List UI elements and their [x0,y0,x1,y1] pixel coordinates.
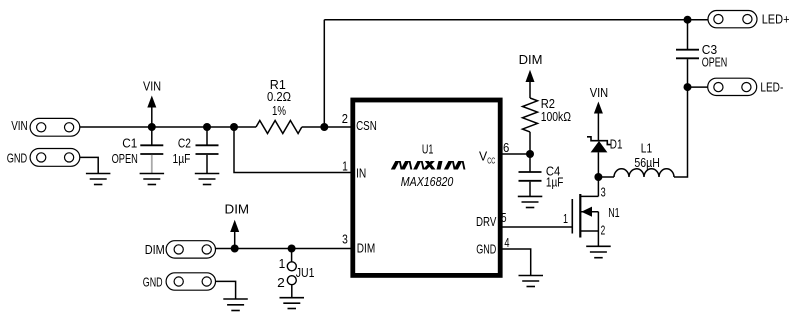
diode D1 schottky [587,114,611,178]
connector J2 GND [30,149,80,167]
svg-text:IN: IN [356,166,366,180]
connector J5 DIM [166,241,215,258]
svg-text:5: 5 [501,211,506,225]
svg-text:OPEN: OPEN [702,56,728,70]
svg-text:2: 2 [601,224,606,238]
ground symbol at C2 [195,174,220,185]
node junction LED- [684,83,692,91]
node junction DIM flag [231,245,239,253]
capacitor C1 [140,127,163,154]
ground symbol at IC GND [519,276,544,287]
svg-text:100kΩ: 100kΩ [541,110,571,124]
power flag DIM at R2 [526,70,535,82]
svg-text:3: 3 [342,233,348,247]
wire VCC pin to R2/C4 [501,153,531,155]
svg-text:2: 2 [342,112,348,126]
wire stub to LED+ [688,19,709,21]
wire stub to LED- [688,86,708,88]
power flag DIM bottom [230,220,239,249]
svg-text:1%: 1% [272,104,286,118]
svg-text:GND: GND [7,151,28,165]
svg-text:GND: GND [143,275,163,289]
svg-text:1: 1 [342,159,348,173]
svg-text:D1: D1 [610,138,623,152]
wire GND connector to ground [80,157,98,173]
svg-text:DIM: DIM [357,241,375,255]
wire top feedback vertical [323,20,325,127]
wire LED- down to inductor [674,87,688,177]
node junction drain/L1/D1 [594,173,602,181]
capacitor C4 [519,154,542,196]
wire R1 to CSN pin [302,126,351,128]
node junction CSN [320,123,328,131]
IC U1 MAX16820 body [353,100,500,275]
svg-text:VCC: VCC [479,150,495,166]
power flag VIN top-left [147,96,156,128]
ground symbol at C1 [140,174,165,185]
connector J4 LED- [708,78,757,95]
wire GND pin 4 to ground [501,249,531,276]
svg-text:DIM: DIM [225,203,250,217]
svg-text:C2: C2 [178,137,191,151]
node junction IN branch [230,123,238,131]
svg-text:2: 2 [277,276,285,290]
wire IN branch [234,127,351,173]
svg-text:CSN: CSN [356,119,377,133]
wire VIN rail [80,126,256,128]
svg-text:DIM: DIM [519,53,543,67]
svg-text:1: 1 [563,212,568,226]
ground symbol at N1 source [586,246,611,257]
svg-text:R2: R2 [541,97,555,111]
svg-text:VIN: VIN [590,86,609,100]
inductor L1 [614,169,674,177]
capacitor C2 [196,127,219,174]
svg-text:U1: U1 [422,143,434,157]
wire inductor to drain node [598,176,614,178]
power flag VIN at D1 [594,102,603,114]
svg-text:0.2Ω: 0.2Ω [267,90,291,104]
jumper JU1 [287,249,296,298]
svg-text:VIN: VIN [143,79,161,93]
wire DIM line to pin 3 [216,248,351,250]
svg-text:OPEN: OPEN [112,152,138,166]
node junction VIN/C1 [148,123,156,131]
transistor N1 MOSFET [572,177,598,246]
node junction LED+ [684,16,692,24]
svg-text:N1: N1 [608,206,620,220]
node junction C2 [203,123,211,131]
svg-text:VIN: VIN [11,119,28,133]
wire GND bottom connector to ground [216,281,236,299]
svg-text:JU1: JU1 [296,266,315,280]
wire C1 open lead (gray) [151,155,153,174]
logo MAXIM [391,161,466,170]
svg-text:LED-: LED- [760,81,783,95]
capacitor C3 [676,20,699,87]
svg-text:L1: L1 [641,141,652,155]
node junction VCC [526,150,534,158]
svg-text:1: 1 [279,257,286,271]
svg-text:GND: GND [476,243,496,257]
svg-text:DRV: DRV [476,215,497,229]
ground symbol at GND connector [86,174,111,185]
svg-text:DIM: DIM [145,243,165,257]
ground symbol at C4 [518,196,543,207]
wire DRV pin 5 to gate [501,226,572,228]
node junction JU1 [288,245,296,253]
svg-text:3: 3 [601,185,606,199]
connector J1 VIN [30,118,80,136]
resistor R1 [256,121,302,134]
svg-text:1µF: 1µF [546,175,564,189]
svg-text:1µF: 1µF [173,152,191,166]
connector J6 GND bottom [166,273,215,290]
ground symbol at JU1 [280,298,305,309]
ground symbol at GND bottom connector [223,299,248,311]
connector J3 LED+ [708,11,757,28]
svg-text:6: 6 [503,141,509,155]
svg-text:LED+: LED+ [762,13,790,27]
svg-text:4: 4 [504,236,509,250]
wire top rail [324,19,687,21]
svg-text:C1: C1 [122,137,137,151]
svg-text:MAX16820: MAX16820 [401,175,454,189]
resistor R2 [523,82,538,154]
svg-text:56µH: 56µH [634,156,660,170]
